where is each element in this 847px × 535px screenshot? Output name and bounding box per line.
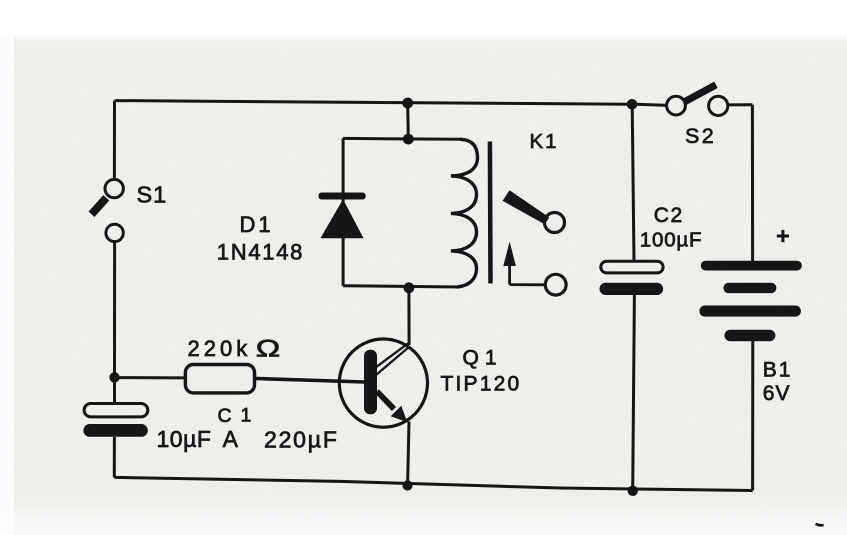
wire right rail upper (to battery +) <box>751 105 754 262</box>
plus sign horizontal stroke <box>777 235 789 238</box>
D1 cathode bar <box>319 193 366 200</box>
svg-text:C: C <box>218 405 232 427</box>
wire Q1 emitter down to bottom rail <box>408 422 409 486</box>
resistor R (220k) body <box>185 365 254 393</box>
wire relay loop top rail <box>343 137 461 141</box>
wire left rail middle (S1 to node) <box>113 243 116 378</box>
battery B1 <box>699 261 801 341</box>
wire K1 lower contact lead <box>510 283 544 286</box>
transistor Q1 emitter arrow <box>377 391 408 422</box>
wire top junction down to relay loop <box>406 103 410 139</box>
wire relay loop junction down to Q1 collector <box>407 288 410 345</box>
switch S1 <box>92 179 124 241</box>
S2 right terminal circle <box>709 96 728 115</box>
transistor Q1 circle <box>339 339 427 427</box>
relay K1 contact arm (tapered) <box>503 190 550 224</box>
relay K1 core bar <box>488 142 493 284</box>
Q1 emitter arrow head <box>391 406 408 423</box>
wire C1 to bottom corner <box>113 437 116 478</box>
wire right rail lower (battery - to bottom) <box>751 341 754 491</box>
svg-text:B1: B1 <box>763 358 793 381</box>
node left rail / resistor junction <box>109 372 119 382</box>
svg-text:Ω: Ω <box>256 335 280 362</box>
wire C2 branch upper <box>632 105 634 262</box>
Q1 emitter stroke <box>377 391 394 409</box>
transistor Q1 collector double line <box>377 343 410 375</box>
plus sign vertical stroke <box>781 230 784 242</box>
svg-text:220k: 220k <box>188 336 252 361</box>
node C2 top junction <box>627 99 638 110</box>
wire node to resistor <box>115 376 186 379</box>
stray ink mark bottom right <box>816 524 824 526</box>
wire relay loop bottom rail <box>343 286 459 287</box>
capacitor C1 <box>83 404 147 437</box>
svg-text:A: A <box>223 426 239 452</box>
svg-text:1: 1 <box>241 405 252 427</box>
capacitor C2 <box>600 261 664 295</box>
node top junction at relay branch <box>402 98 413 109</box>
S2 left terminal circle <box>667 96 686 115</box>
wire left rail upper <box>113 101 116 179</box>
K1 arrow shaft <box>508 260 511 285</box>
node relay loop top junction <box>403 134 414 145</box>
wire top rail right of S2 <box>729 103 753 106</box>
svg-text:C2: C2 <box>654 204 684 227</box>
D1 anode triangle <box>320 199 363 238</box>
B1 plate 4 (short) <box>724 330 775 341</box>
B1 plate 1 (long, +) <box>701 261 802 271</box>
battery plus sign <box>777 230 789 242</box>
svg-text:220µF: 220µF <box>264 426 339 452</box>
switch S2 <box>667 85 728 116</box>
S1 upper terminal circle <box>105 179 123 197</box>
svg-text:S2: S2 <box>685 124 716 148</box>
svg-text:100µF: 100µF <box>640 228 703 251</box>
transistor Q1 base bar <box>364 350 377 415</box>
Q1 collector stroke upper <box>377 343 410 367</box>
S1 lever <box>92 198 107 215</box>
S1 lower terminal circle <box>106 224 123 241</box>
wire C2 branch lower <box>633 295 635 491</box>
svg-text:10µF: 10µF <box>157 426 212 452</box>
wire resistor to Q1 base <box>255 378 365 382</box>
Q1 collector stroke lower <box>377 346 410 374</box>
svg-text:Q1: Q1 <box>463 346 503 369</box>
svg-text:K1: K1 <box>530 130 559 153</box>
svg-text:TIP120: TIP120 <box>441 372 522 395</box>
relay K1 lower contact circle <box>545 274 566 295</box>
svg-text:D1: D1 <box>240 212 274 237</box>
node Q1 emitter bottom junction <box>402 480 412 490</box>
C1 top plate <box>84 404 148 417</box>
K1 arrow head <box>503 242 516 267</box>
S2 lever <box>685 85 717 102</box>
node relay loop bottom junction <box>404 282 415 293</box>
diode D1 <box>319 193 366 239</box>
wire D1 branch vertical <box>342 138 345 285</box>
C2 top plate <box>601 261 663 273</box>
relay K1 coil <box>451 139 478 287</box>
wire top rail <box>115 101 666 106</box>
svg-text:6V: 6V <box>763 382 791 405</box>
B1 plate 2 (short) <box>723 283 776 293</box>
B1 plate 3 (long) <box>699 306 801 317</box>
wire left rail to C1 <box>113 377 116 403</box>
relay K1 upper contact circle <box>545 213 565 233</box>
C1 bottom plate <box>83 424 147 437</box>
svg-text:S1: S1 <box>137 182 168 208</box>
relay K1 actuation arrow <box>503 242 544 285</box>
svg-text:1N4148: 1N4148 <box>217 239 304 264</box>
C2 bottom plate <box>600 283 664 295</box>
node C2 bottom junction <box>628 486 638 496</box>
wire bottom rail <box>114 477 752 490</box>
